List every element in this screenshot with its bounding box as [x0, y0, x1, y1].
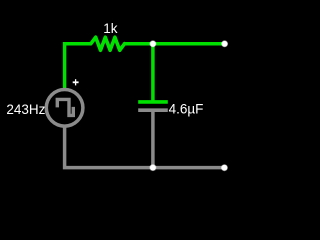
node: bottom junction [149, 164, 156, 171]
svg-text:243Hz: 243Hz [6, 102, 45, 117]
svg-text:4.6µF: 4.6µF [169, 102, 204, 117]
wire: source top to top-left corner to resistor (green) [65, 44, 91, 90]
resistor R1 1k zigzag [91, 37, 125, 50]
node: top junction [149, 40, 156, 47]
wire: bottom rail left corner to right terminal (gray) [65, 126, 225, 167]
wire: junction down to capacitor top plate (green) [151, 44, 155, 102]
capacitor C1 bottom plate (gray) [138, 108, 168, 112]
voltage source V1 circle body [46, 90, 83, 127]
node: top right terminal [221, 40, 228, 47]
wire: junction to right terminal (green) [153, 42, 225, 46]
wire: resistor right lead to junction [125, 42, 153, 46]
svg-text:1k: 1k [103, 21, 118, 36]
plus sign polarity marker [73, 79, 79, 85]
capacitor C1 top plate (green) [138, 100, 168, 104]
voltage source V1 square-wave glyph [57, 99, 73, 115]
wire: capacitor bottom plate down to bottom junction (gray) [151, 110, 155, 167]
node: bottom right terminal [221, 164, 228, 171]
